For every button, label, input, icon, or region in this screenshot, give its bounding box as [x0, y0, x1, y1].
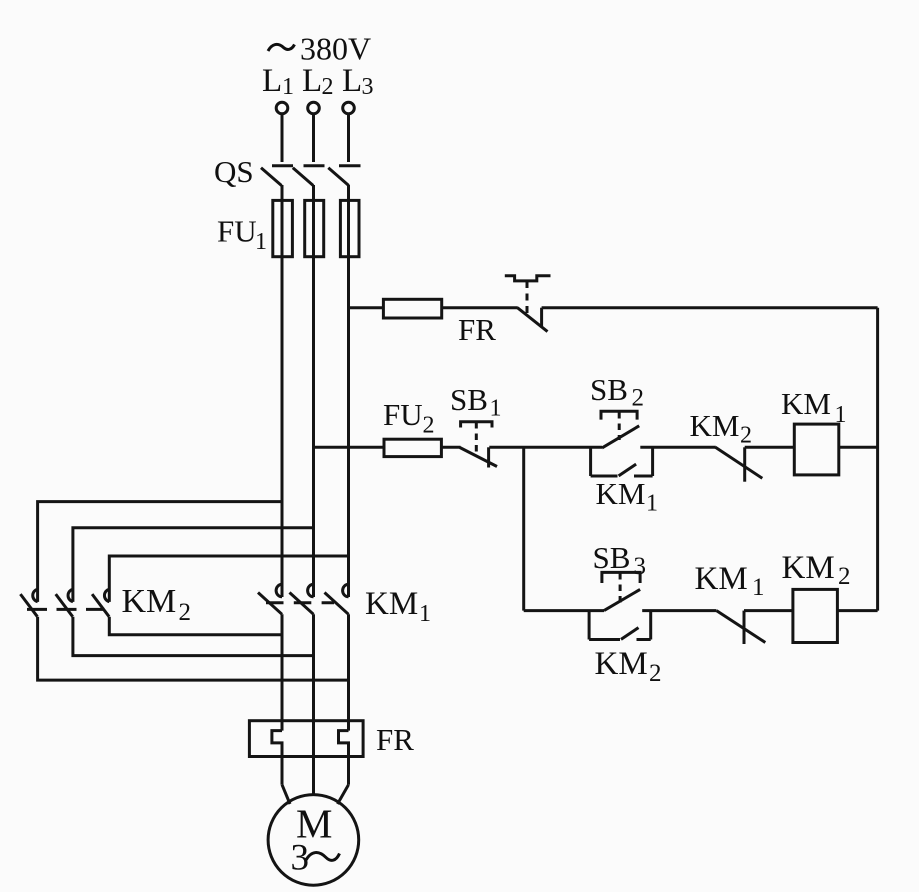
wire KM1 coil to bus [839, 446, 878, 449]
fuse FU2 label [383, 397, 435, 439]
switch QS pole 2 [293, 166, 325, 186]
label KM2 main [122, 583, 192, 626]
label L2 [302, 63, 334, 100]
svg-text:380V: 380V [300, 31, 371, 67]
wire row3 SB3 to KM1 NC [642, 609, 716, 612]
wire control row3 left [524, 609, 604, 612]
svg-text:KM: KM [365, 586, 418, 622]
contact KM1 linkage dashes [266, 601, 334, 604]
relay FR dashed link [526, 281, 529, 313]
contact KM1 interlock NC [717, 611, 766, 644]
wire phase3 vertical FU1 to KM1 contact [347, 257, 350, 597]
relay FR thermal actuator [505, 276, 551, 281]
wire phase2 KM1 to motor [312, 614, 315, 795]
relay FR heater element phase1 [272, 731, 282, 785]
contact KM1 main pole2 [290, 584, 314, 614]
relay FR NC contact [517, 308, 547, 332]
wire phase3 KM1 to FR heater [347, 614, 350, 730]
wire phase1 to motor [282, 785, 290, 804]
svg-text:1: 1 [490, 396, 502, 422]
contact KM2 interlock label [690, 408, 753, 449]
label L1 [262, 63, 294, 100]
button SB1 label [450, 382, 502, 422]
button SB3 dashed link [619, 573, 622, 603]
svg-text:KM: KM [782, 550, 835, 586]
motor M [268, 795, 359, 886]
switch QS pole 3 [328, 166, 360, 186]
svg-text:2: 2 [649, 660, 662, 687]
contact KM2 main pole2 [56, 589, 73, 616]
svg-text:1: 1 [752, 574, 765, 601]
coil KM2 [793, 589, 838, 642]
svg-text:FR: FR [458, 312, 496, 347]
wire KM2 out pole2 to phase2 [73, 617, 314, 656]
wire KM2 NC to KM1 coil [745, 446, 795, 449]
wire row2 SB2 to KM2 NC [640, 446, 716, 449]
coil KM2 label [782, 550, 851, 590]
svg-text:3: 3 [362, 74, 374, 100]
terminal L2 [308, 102, 320, 114]
switch QS pole 1 [261, 166, 293, 186]
fuse FU1 phase2 [305, 200, 324, 256]
svg-text:1: 1 [282, 74, 294, 100]
fuse FU1 label [217, 214, 267, 256]
wire KM2 branch tap phase1 [38, 502, 282, 602]
wire KM2 coil to bus [837, 609, 877, 612]
node branch row2 to row3 [522, 447, 525, 610]
wire phase3 to motor [338, 785, 349, 804]
coil KM1 label [781, 386, 847, 428]
fuse FU1 phase3 [340, 200, 359, 256]
svg-text:L: L [262, 63, 282, 99]
wire KM2 branch tap phase2 [73, 528, 314, 602]
wire control row1 from L3 tap to fuse [349, 306, 385, 309]
fuse FU2 [384, 439, 461, 456]
wire KM1 NC to KM2 coil [744, 609, 793, 612]
coil KM1 [794, 424, 839, 475]
svg-text:KM: KM [596, 476, 646, 511]
svg-text:SB: SB [590, 372, 628, 407]
wire phase1 KM1 to FR heater [281, 614, 284, 730]
button SB3 cap [602, 572, 640, 583]
svg-text:1: 1 [419, 601, 431, 627]
button SB3 NO contact [604, 589, 640, 610]
svg-text:2: 2 [179, 599, 192, 626]
motor label M 3~ [291, 801, 340, 879]
svg-text:SB: SB [593, 540, 631, 575]
wire L2 terminal to QS [312, 114, 315, 162]
contact KM1 self-hold branch [591, 447, 653, 476]
terminal L3 [343, 102, 355, 114]
wire KM2 branch tap phase3 [109, 556, 348, 602]
button SB1 cap [461, 422, 492, 428]
wire KM2 out pole3 to phase1 [109, 617, 282, 635]
button SB2 NO contact [602, 426, 639, 448]
button SB1 NC contact [460, 447, 497, 467]
contact KM2 main pole3 [92, 589, 109, 616]
svg-text:1: 1 [255, 229, 267, 255]
wire phase2 vertical FU1 to KM1 contact [312, 257, 315, 597]
fuse on control row1 [383, 299, 517, 318]
button SB2 label [590, 372, 644, 412]
fuse FU1 phase1 [273, 200, 293, 256]
svg-text:L: L [342, 63, 362, 99]
svg-text:2: 2 [322, 74, 334, 100]
label ~380V supply [268, 31, 371, 67]
svg-text:FU: FU [383, 397, 423, 432]
svg-text:1: 1 [646, 491, 658, 517]
label KM1 self-hold [596, 476, 659, 517]
svg-text:KM: KM [595, 646, 648, 682]
button SB2 dashed link [618, 412, 621, 440]
svg-text:FU: FU [217, 214, 257, 249]
svg-text:KM: KM [122, 583, 177, 620]
svg-text:KM: KM [690, 408, 740, 443]
button SB1 dashed link [475, 422, 478, 452]
wire control row2 from L2 tap to FU2 [314, 446, 385, 449]
contact KM1 main pole3 [325, 584, 349, 614]
right bus vertical [876, 308, 879, 611]
relay FR heater element phase3 [339, 731, 349, 785]
svg-text:2: 2 [838, 563, 851, 590]
label KM2 self-hold [595, 646, 662, 687]
svg-text:KM: KM [781, 386, 831, 421]
contact KM2 interlock NC [715, 447, 762, 481]
svg-text:L: L [302, 63, 322, 99]
wire KM2 out pole1 to phase3 [38, 617, 349, 680]
svg-text:QS: QS [214, 154, 254, 189]
contact KM2 linkage dashes [27, 608, 105, 611]
svg-text:2: 2 [632, 385, 645, 412]
contact KM1 interlock label [695, 561, 765, 601]
wire L3 terminal to QS [347, 114, 350, 162]
terminal L1 [276, 102, 288, 114]
contact KM2 self-hold branch [589, 611, 651, 640]
wire row2 SB1 to SB2 [489, 446, 602, 449]
wire QS to FU1 phase1 [281, 185, 284, 201]
svg-text:2: 2 [423, 413, 435, 439]
wire QS to FU1 phase3 [347, 185, 350, 201]
label KM1 main [365, 586, 431, 627]
svg-text:2: 2 [740, 423, 752, 449]
svg-text:FR: FR [376, 722, 414, 757]
label L3 [342, 63, 374, 100]
contact KM1 main pole1 [258, 584, 282, 614]
svg-text:SB: SB [450, 382, 488, 417]
wire QS to FU1 phase2 [312, 185, 315, 201]
relay FR heater box [249, 721, 363, 757]
svg-text:KM: KM [695, 561, 748, 597]
button SB2 cap [601, 411, 637, 419]
wire control row1 to right bus [542, 306, 878, 309]
contact KM2 main pole1 [20, 589, 37, 616]
wire L1 terminal to QS [281, 114, 284, 162]
wire phase1 vertical FU1 to KM1 contact [281, 257, 284, 597]
button SB3 label [593, 540, 647, 580]
